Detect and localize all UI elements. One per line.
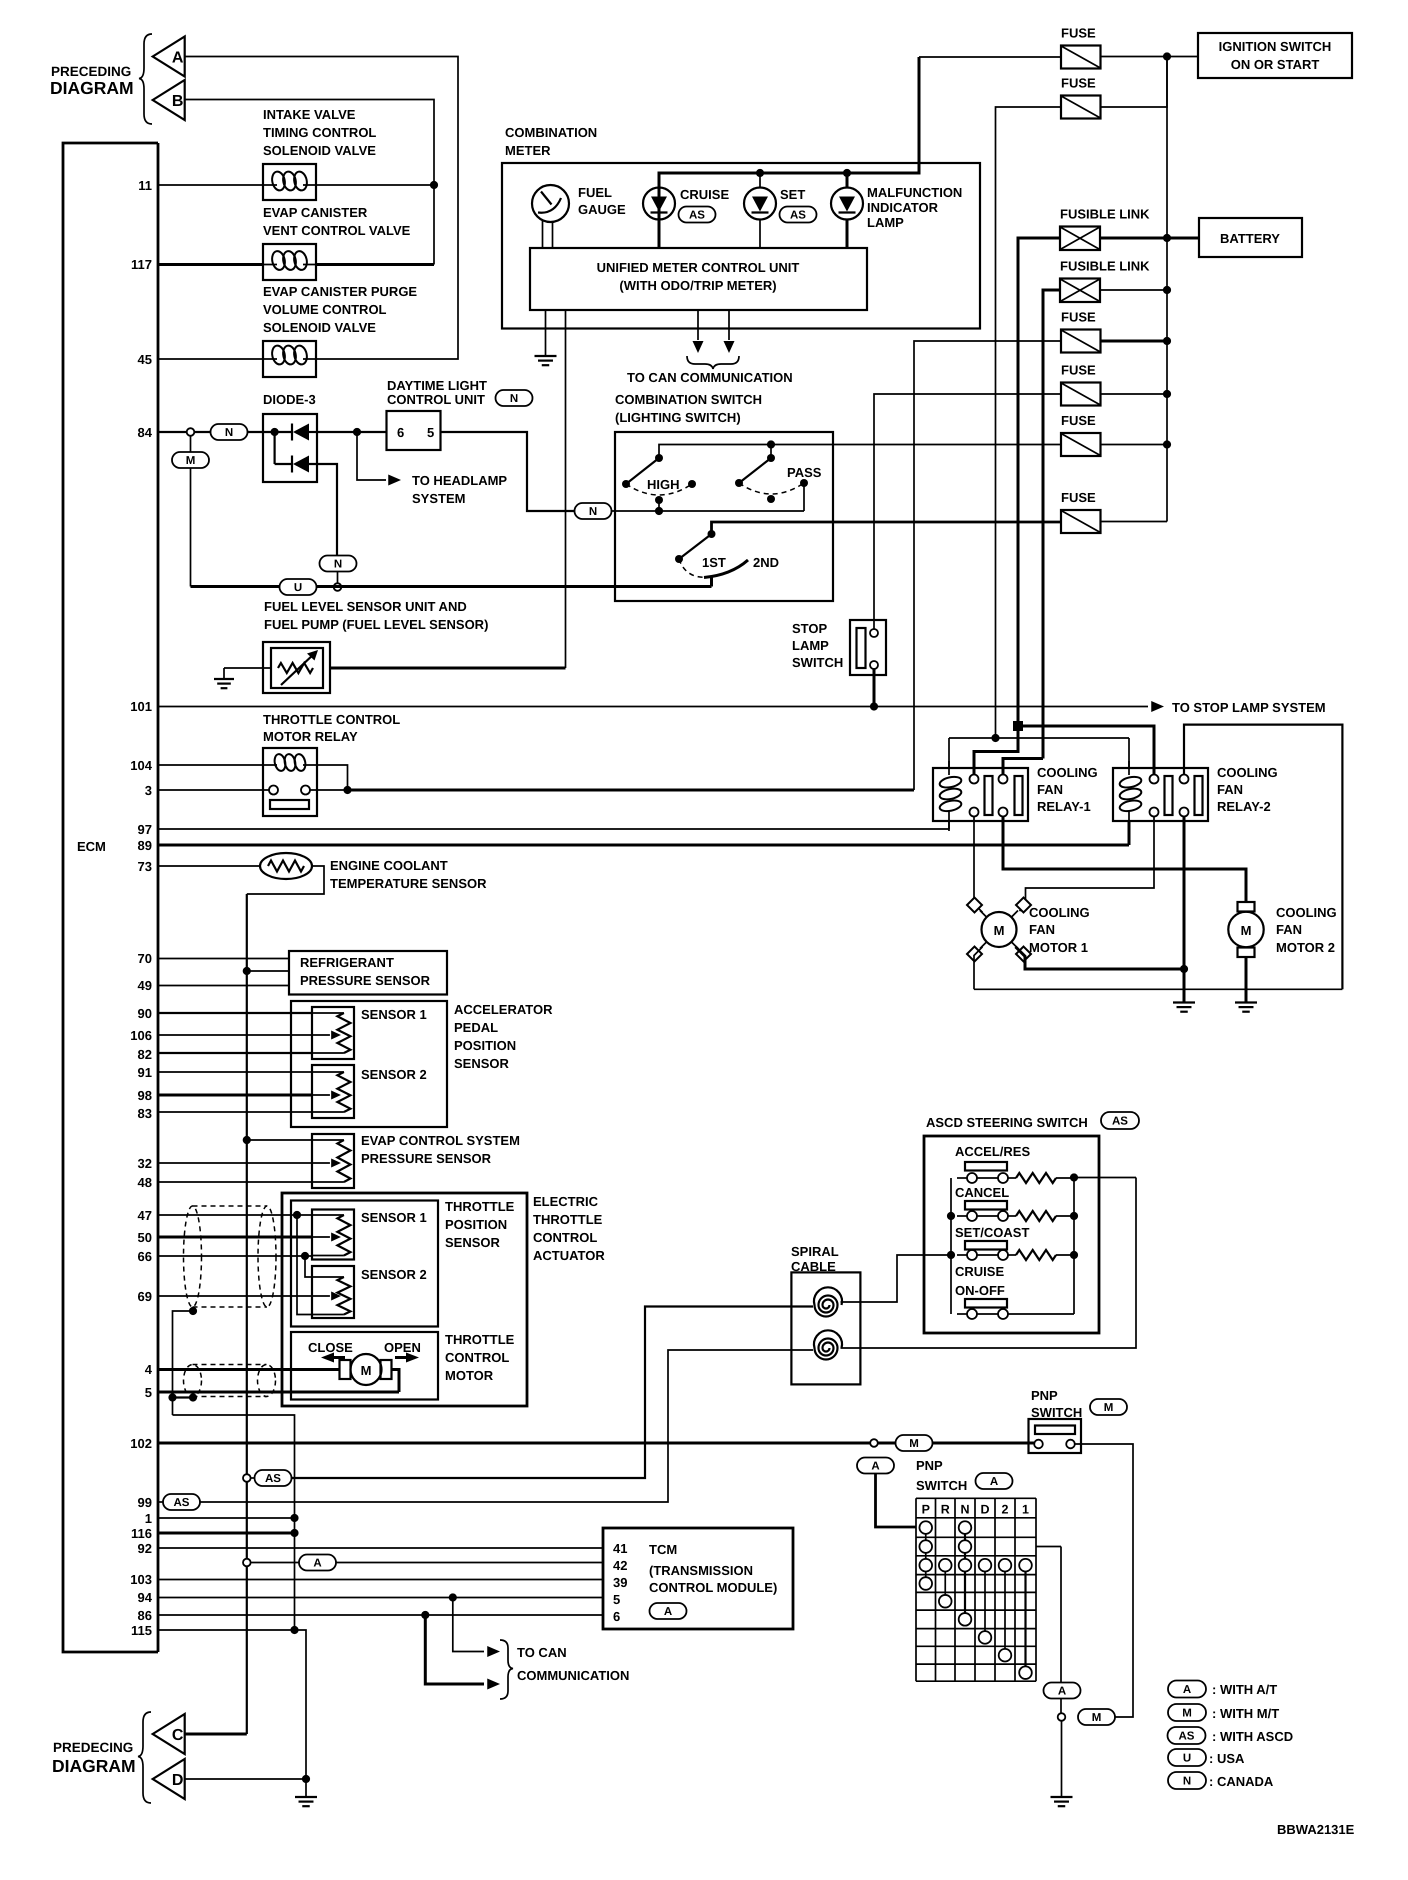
svg-text:4: 4: [145, 1362, 153, 1377]
node fuse4 junction: [1163, 390, 1171, 398]
APP sensor2 box: [312, 1065, 354, 1118]
svg-text:PREDECING: PREDECING: [53, 1740, 133, 1755]
svg-text:VENT CONTROL VALVE: VENT CONTROL VALVE: [263, 223, 411, 238]
ground meter: [535, 355, 557, 357]
svg-text:FUEL: FUEL: [578, 185, 612, 200]
throttle control motor M: [351, 1354, 382, 1385]
stop lamp switch box: [850, 620, 886, 675]
svg-text:MOTOR: MOTOR: [445, 1368, 494, 1383]
svg-text:DAYTIME LIGHT: DAYTIME LIGHT: [387, 378, 487, 393]
node junction B/11: [430, 181, 438, 189]
wire 2ND to U-wire: [710, 577, 713, 587]
node high junction: [655, 507, 663, 515]
svg-text:A: A: [172, 50, 184, 67]
svg-text:CONTROL: CONTROL: [445, 1350, 509, 1365]
wire FL2 to relay1 pin2: [1003, 759, 1043, 775]
wire meter top bus: [659, 57, 919, 188]
svg-text:1ST: 1ST: [702, 555, 726, 570]
wire relay2 coil to pin89: [1128, 821, 1131, 845]
cooling fan motor 2: [1228, 912, 1263, 947]
svg-text:SPIRAL: SPIRAL: [791, 1244, 839, 1259]
solenoid valve V2 (pin 117): [263, 244, 316, 280]
svg-text:VOLUME CONTROL: VOLUME CONTROL: [263, 302, 387, 317]
svg-text:50: 50: [138, 1230, 152, 1245]
svg-text:SWITCH: SWITCH: [1031, 1405, 1082, 1420]
node 94 CAN branch: [449, 1593, 457, 1601]
wire cruise lamp drop: [658, 188, 661, 249]
brace to CAN: [687, 356, 739, 369]
wire CAN arrow 2: [728, 310, 730, 340]
svg-text:: WITH ASCD: : WITH ASCD: [1212, 1729, 1293, 1744]
svg-text:6: 6: [397, 425, 404, 440]
wire A to solenoid 45: [185, 57, 458, 360]
wire stop lamp switch to stop lamp net: [873, 669, 876, 707]
svg-text:41: 41: [613, 1541, 627, 1556]
cooling fan relay-2 box: [1113, 768, 1208, 821]
svg-text:ON-OFF: ON-OFF: [955, 1283, 1005, 1298]
svg-text:FUSE: FUSE: [1061, 310, 1096, 325]
svg-text:EVAP CANISTER: EVAP CANISTER: [263, 205, 368, 220]
oval A pnp label: [976, 1473, 1013, 1489]
svg-text:REFRIGERANT: REFRIGERANT: [300, 955, 394, 970]
wire 115 to ground: [295, 1630, 307, 1779]
svg-text:99: 99: [138, 1495, 152, 1510]
svg-text:A: A: [871, 1461, 879, 1473]
wire relay2 out2 to ground: [1183, 817, 1186, 1003]
svg-text:106: 106: [130, 1028, 152, 1043]
svg-text:117: 117: [131, 257, 152, 272]
svg-text:D: D: [172, 1772, 184, 1789]
svg-text:THROTTLE CONTROL: THROTTLE CONTROL: [263, 712, 400, 727]
svg-text:MOTOR RELAY: MOTOR RELAY: [263, 729, 358, 744]
PNP switch M box: [1029, 1419, 1082, 1453]
wire C to sensor ground bus: [185, 1733, 247, 1736]
wire UMCU to fuel level sensor: [565, 310, 567, 668]
wire motor1 SW to relay2 loop: [974, 947, 983, 990]
svg-text:AS: AS: [689, 210, 705, 222]
node 66 branch: [301, 1252, 309, 1260]
svg-text:SENSOR 1: SENSOR 1: [361, 1007, 427, 1022]
ground fuel sensor: [214, 678, 234, 680]
node FL2 junction: [1163, 286, 1171, 294]
svg-text:DIAGRAM: DIAGRAM: [52, 1756, 136, 1776]
wire N canada lighting: [527, 510, 575, 512]
wire N oval to U-wire circle: [337, 572, 339, 585]
svg-text:70: 70: [138, 951, 152, 966]
wire M branch pin84: [190, 436, 192, 452]
svg-text:66: 66: [138, 1249, 152, 1264]
lamp CRUISE: [643, 188, 675, 220]
node headlamp branch: [353, 428, 361, 436]
wire PNP grid out: [1036, 1546, 1061, 1548]
combination meter box: [502, 163, 980, 329]
svg-text:RELAY-1: RELAY-1: [1037, 799, 1091, 814]
svg-text:FUSE: FUSE: [1061, 363, 1096, 378]
svg-text:P: P: [922, 1502, 930, 1516]
svg-text:FAN: FAN: [1029, 922, 1055, 937]
battery box: [1199, 218, 1302, 257]
svg-text:102: 102: [130, 1436, 152, 1451]
relay2 pins: [1150, 775, 1159, 784]
throttle control motor box: [291, 1332, 438, 1400]
wire spiral bottom right to ASCD: [841, 1178, 1137, 1349]
svg-text:INDICATOR: INDICATOR: [867, 200, 939, 215]
wire battery bus vertical: [1166, 57, 1168, 522]
node motor return junction: [1180, 965, 1188, 973]
shield twisted pair TPS: [184, 1206, 202, 1307]
svg-text:PRESSURE SENSOR: PRESSURE SENSOR: [361, 1151, 492, 1166]
svg-text:TIMING CONTROL: TIMING CONTROL: [263, 125, 376, 140]
svg-text:73: 73: [138, 859, 152, 874]
svg-text:TO STOP LAMP SYSTEM: TO STOP LAMP SYSTEM: [1172, 700, 1326, 715]
wire relay1 out2 to motor2: [1003, 817, 1246, 903]
svg-text:COOLING: COOLING: [1037, 765, 1098, 780]
svg-text:CONTROL MODULE): CONTROL MODULE): [649, 1580, 777, 1595]
ground PNP: [1051, 1796, 1073, 1798]
svg-text:98: 98: [138, 1088, 152, 1103]
svg-text:SENSOR 2: SENSOR 2: [361, 1267, 427, 1282]
svg-text:86: 86: [138, 1608, 152, 1623]
wire pass contact down: [803, 483, 805, 511]
svg-text:1: 1: [1022, 1502, 1029, 1516]
svg-text:AS: AS: [265, 1473, 281, 1485]
svg-text:TO CAN COMMUNICATION: TO CAN COMMUNICATION: [627, 370, 793, 385]
node evap ground tap: [243, 1136, 251, 1144]
node shield pin116: [290, 1529, 298, 1537]
svg-text:TEMPERATURE SENSOR: TEMPERATURE SENSOR: [330, 876, 487, 891]
node battery junction: [1163, 234, 1171, 242]
relay1 pins: [970, 775, 979, 784]
svg-text:: CANADA: : CANADA: [1209, 1774, 1274, 1789]
solenoid valve V3 (pin 45): [263, 341, 316, 377]
svg-text:A: A: [1183, 1684, 1191, 1696]
svg-text:N: N: [334, 559, 342, 571]
wire daytime out to lighting switch: [441, 432, 575, 511]
svg-text:: WITH M/T: : WITH M/T: [1212, 1706, 1279, 1721]
svg-text:CRUISE: CRUISE: [680, 187, 729, 202]
diode-3 box: [263, 414, 317, 482]
wire fuse2 left: [996, 107, 1062, 738]
wire motor1 SE to ground net: [1016, 947, 1185, 969]
svg-text:FUSE: FUSE: [1061, 413, 1096, 428]
TPS sensor2 box: [312, 1266, 354, 1318]
wire to headlamp system: [357, 432, 386, 480]
oval A bottom: [1044, 1683, 1081, 1699]
combination switch box: [615, 432, 833, 601]
wire B vertical: [185, 100, 434, 265]
brace CAN bottom: [500, 1640, 513, 1699]
svg-text:POSITION: POSITION: [454, 1038, 516, 1053]
svg-text:HIGH: HIGH: [647, 477, 680, 492]
svg-text:ASCD STEERING SWITCH: ASCD STEERING SWITCH: [926, 1115, 1088, 1130]
svg-text:90: 90: [138, 1006, 152, 1021]
wire fuel gauge to UMCU: [542, 221, 544, 248]
svg-text:R: R: [941, 1502, 950, 1516]
svg-text:COOLING: COOLING: [1029, 905, 1090, 920]
svg-text:A: A: [1058, 1686, 1066, 1698]
node shield pin1: [290, 1514, 298, 1522]
svg-text:FAN: FAN: [1217, 782, 1243, 797]
wire relay1 out1 to motor1: [974, 817, 983, 913]
lamp SET: [744, 188, 776, 220]
wire stop lamp switch to fuse4: [874, 394, 1061, 629]
svg-text:48: 48: [138, 1175, 152, 1190]
svg-text:COMBINATION SWITCH: COMBINATION SWITCH: [615, 392, 762, 407]
svg-text:FUSE: FUSE: [1061, 490, 1096, 505]
svg-text:COOLING: COOLING: [1217, 765, 1278, 780]
relay1 contact bars: [985, 776, 993, 815]
brace preceding top: [139, 34, 152, 124]
svg-text:3: 3: [145, 783, 152, 798]
wire to ground bottom: [1061, 1721, 1063, 1797]
svg-text:CRUISE: CRUISE: [955, 1264, 1004, 1279]
svg-text:2: 2: [1002, 1502, 1009, 1516]
svg-text:94: 94: [138, 1590, 153, 1605]
svg-text:SENSOR 1: SENSOR 1: [361, 1210, 427, 1225]
wire ECT to sensor ground bus: [247, 866, 324, 894]
svg-text:ON OR START: ON OR START: [1231, 57, 1320, 72]
connector circle pin84: [187, 428, 195, 436]
wire fuse5 right: [1101, 444, 1168, 446]
wire motor2 to ground: [1245, 957, 1248, 1002]
wire relay1 coil to pin97: [948, 821, 950, 829]
cooling fan motor 1: [982, 912, 1017, 947]
wire fuel sensor to meter: [330, 667, 566, 670]
svg-text:2ND: 2ND: [753, 555, 779, 570]
wire fuse1 to ignition switch: [1101, 56, 1199, 58]
EVAP control system pressure sensor box: [312, 1134, 354, 1188]
wire AS sensor ground to spiral: [243, 1474, 251, 1482]
oval AS cruise: [679, 207, 716, 223]
PNP grid position circles: [919, 1521, 932, 1534]
svg-text:SWITCH: SWITCH: [916, 1478, 967, 1493]
wire shield to ECM shield pins: [173, 1415, 295, 1630]
wire spiral top right to ASCD: [841, 1255, 952, 1302]
svg-text:EVAP CONTROL SYSTEM: EVAP CONTROL SYSTEM: [361, 1133, 520, 1148]
svg-text:M: M: [1092, 1712, 1102, 1724]
throttle position sensor box: [291, 1201, 438, 1327]
svg-text:N: N: [589, 506, 597, 518]
svg-text:B: B: [172, 93, 184, 110]
svg-text:SENSOR: SENSOR: [454, 1056, 510, 1071]
svg-text:101: 101: [130, 699, 152, 714]
wire A branch to TCM 42: [243, 1559, 251, 1567]
svg-text:32: 32: [138, 1156, 152, 1171]
node shield drain 1: [189, 1307, 197, 1315]
svg-text:SWITCH: SWITCH: [792, 655, 843, 670]
svg-text:U: U: [294, 582, 302, 594]
svg-text:1: 1: [145, 1511, 152, 1526]
svg-text:FAN: FAN: [1037, 782, 1063, 797]
wire fusible link2 right: [1100, 289, 1167, 291]
wire motor return: [392, 1370, 400, 1393]
svg-text:ELECTRIC: ELECTRIC: [533, 1194, 599, 1209]
wire battery: [1167, 237, 1199, 240]
svg-text:POSITION: POSITION: [445, 1217, 507, 1232]
connector circle bottom: [1058, 1713, 1066, 1721]
svg-text:5: 5: [427, 425, 434, 440]
svg-text:A: A: [990, 1476, 998, 1488]
svg-text:RELAY-2: RELAY-2: [1217, 799, 1271, 814]
node relay output junction: [343, 786, 351, 794]
svg-text:OPEN: OPEN: [384, 1340, 421, 1355]
svg-text:91: 91: [138, 1065, 152, 1080]
wire relay2 pin2 feed loop: [1184, 725, 1342, 990]
relay2 contact bars: [1165, 776, 1173, 815]
svg-text:83: 83: [138, 1106, 152, 1121]
unified meter control unit box: [530, 248, 867, 310]
wire CAN branch arrow2: [425, 1615, 484, 1684]
node fuse3 junction: [1163, 337, 1171, 345]
svg-text:AS: AS: [1112, 1116, 1128, 1128]
svg-text:STOP: STOP: [792, 621, 827, 636]
connector triangle A: [153, 37, 185, 77]
svg-text:TO CAN: TO CAN: [517, 1645, 567, 1660]
svg-text:UNIFIED METER CONTROL UNIT: UNIFIED METER CONTROL UNIT: [597, 260, 800, 275]
svg-text:FUSIBLE LINK: FUSIBLE LINK: [1060, 259, 1150, 274]
wire U net (pin84 USA to lighting switch 1ST): [191, 585, 712, 588]
svg-text:5: 5: [613, 1592, 620, 1607]
svg-text:N: N: [225, 427, 233, 439]
svg-text:AS: AS: [790, 210, 806, 222]
wire M oval to pnp m: [933, 1442, 1035, 1445]
TPS sensor1 box: [312, 1210, 354, 1260]
connector triangle C: [153, 1714, 185, 1754]
oval AS set: [780, 207, 817, 223]
wire fuse2 right riser: [1101, 57, 1168, 108]
relay coil: [273, 753, 287, 772]
node coil feed junction: [991, 734, 999, 742]
svg-text:SET: SET: [780, 187, 805, 202]
svg-text:PNP: PNP: [916, 1458, 943, 1473]
daytime light control unit box: [387, 411, 441, 450]
wire relay coil to output: [311, 765, 348, 790]
svg-text:AS: AS: [1179, 1731, 1195, 1743]
relay2 coil: [1119, 775, 1143, 789]
svg-text:LAMP: LAMP: [792, 638, 829, 653]
node fusible link feed junction: [1013, 721, 1023, 731]
oval N lower: [320, 556, 357, 572]
node fuse5 junction: [1163, 440, 1171, 448]
wire fusible link1 to battery junction: [1100, 237, 1167, 240]
throttle control motor relay box: [263, 748, 317, 816]
wire fuse3 left: [914, 341, 1061, 790]
svg-text:M: M: [1182, 1708, 1192, 1720]
node diode input junction: [271, 428, 279, 436]
wire to A oval chain: [1060, 1547, 1062, 1683]
wire fuse4 right: [1101, 393, 1168, 395]
svg-text:SOLENOID VALVE: SOLENOID VALVE: [263, 143, 376, 158]
svg-text:IGNITION SWITCH: IGNITION SWITCH: [1219, 39, 1332, 54]
wire UMCU ground drop: [545, 310, 547, 356]
svg-text:M: M: [1104, 1402, 1114, 1414]
svg-text:A: A: [313, 1558, 321, 1570]
svg-text:DIAGRAM: DIAGRAM: [50, 78, 134, 98]
svg-text:M: M: [994, 923, 1005, 938]
ASCD steering switch box: [924, 1136, 1099, 1333]
oval U: [280, 579, 317, 595]
wire CAN branch arrow1: [453, 1598, 484, 1652]
wire diode to daytime unit: [317, 431, 387, 433]
oval M pin84: [172, 452, 209, 468]
svg-text:42: 42: [613, 1558, 627, 1573]
svg-text:89: 89: [138, 838, 152, 853]
svg-text:69: 69: [138, 1289, 152, 1304]
APP sensor1 box: [312, 1007, 354, 1059]
svg-text:45: 45: [138, 352, 152, 367]
wire sensor ground bus: [246, 894, 248, 1734]
wire fuse1 left: [919, 56, 1061, 58]
node pass branch: [767, 440, 775, 448]
svg-text:EVAP CANISTER PURGE: EVAP CANISTER PURGE: [263, 284, 417, 299]
svg-text:6: 6: [613, 1609, 620, 1624]
svg-text:49: 49: [138, 978, 152, 993]
svg-text:FAN: FAN: [1276, 922, 1302, 937]
oval M pnp: [896, 1435, 933, 1451]
wire fuse6 right: [1101, 521, 1168, 523]
wire relay output to fuse3 riser: [310, 789, 348, 791]
ground D: [305, 1779, 307, 1797]
svg-text:FUEL LEVEL SENSOR UNIT AND: FUEL LEVEL SENSOR UNIT AND: [264, 599, 467, 614]
svg-text:FUSE: FUSE: [1061, 76, 1096, 91]
wire D to ground: [185, 1778, 306, 1780]
svg-text:A: A: [664, 1606, 672, 1618]
oval AS ascd: [1101, 1112, 1139, 1129]
svg-text:5: 5: [145, 1385, 152, 1400]
svg-text:84: 84: [138, 425, 153, 440]
ignition switch box: [1198, 33, 1352, 78]
svg-text:THROTTLE: THROTTLE: [445, 1199, 515, 1214]
wire M to PNP M switch: [1075, 1444, 1133, 1717]
wire set lamp: [759, 173, 761, 188]
wire fuse3 right: [1101, 340, 1168, 343]
ECM box: [63, 143, 158, 1652]
svg-text:AS: AS: [174, 1497, 190, 1509]
electric throttle control actuator box: [282, 1193, 527, 1406]
svg-text:THROTTLE: THROTTLE: [445, 1332, 515, 1347]
svg-text:97: 97: [138, 822, 152, 837]
wire CAN arrow 1: [697, 310, 699, 340]
svg-text:: USA: : USA: [1209, 1751, 1245, 1766]
svg-text:PNP: PNP: [1031, 1388, 1058, 1403]
svg-text:82: 82: [138, 1047, 152, 1062]
svg-text:MALFUNCTION: MALFUNCTION: [867, 185, 962, 200]
node 86 CAN branch: [421, 1611, 429, 1619]
svg-text:DIODE-3: DIODE-3: [263, 392, 316, 407]
svg-text:N: N: [510, 393, 518, 405]
svg-text:92: 92: [138, 1541, 152, 1556]
connector circle 102: [870, 1439, 878, 1447]
refrigerant pressure sensor box: [289, 951, 447, 995]
svg-text:CANCEL: CANCEL: [955, 1185, 1009, 1200]
oval M bottom: [1078, 1709, 1115, 1725]
svg-text:TO HEADLAMP: TO HEADLAMP: [412, 473, 507, 488]
wire fusible link1 left: [1018, 238, 1060, 726]
accelerator pedal position sensor box: [291, 1001, 447, 1127]
solenoid valve V1 (pin 11): [263, 164, 316, 200]
connector triangle D: [153, 1759, 185, 1799]
svg-text:ECM: ECM: [77, 839, 106, 854]
wire MIL lamp: [846, 173, 849, 188]
svg-text:FUSIBLE LINK: FUSIBLE LINK: [1060, 207, 1150, 222]
node refrigerant ground tap: [243, 967, 251, 975]
svg-text:ACTUATOR: ACTUATOR: [533, 1248, 605, 1263]
svg-text:THROTTLE: THROTTLE: [533, 1212, 603, 1227]
svg-text:LAMP: LAMP: [867, 215, 904, 230]
ground motor2: [1235, 1001, 1257, 1003]
PNP grid connection lines: [925, 1528, 927, 1584]
svg-text:PRESSURE SENSOR: PRESSURE SENSOR: [300, 973, 431, 988]
